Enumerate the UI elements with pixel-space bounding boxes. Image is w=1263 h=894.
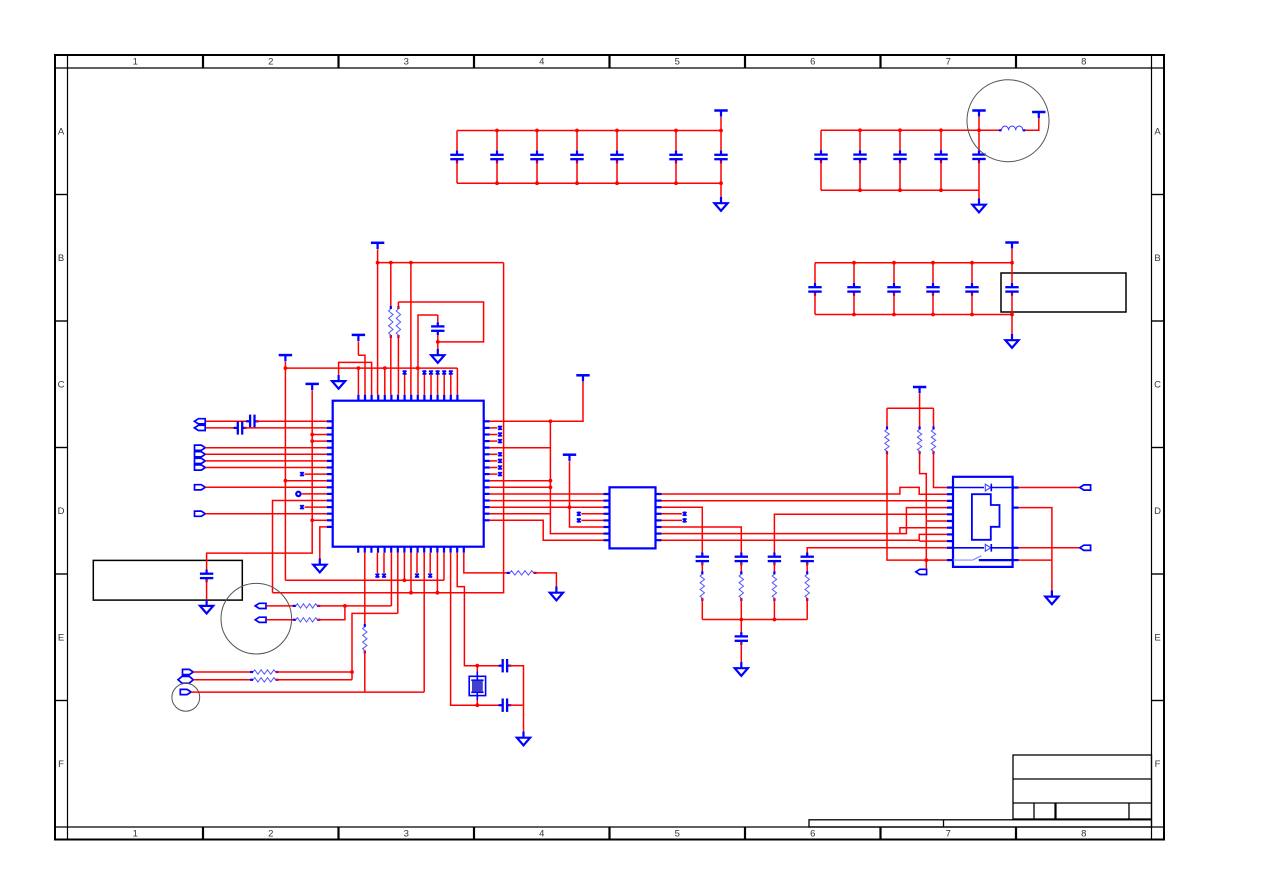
connector block box right [1001, 273, 1126, 312]
connector pin P3 [195, 445, 206, 450]
capacitor C2 [496, 131, 498, 154]
wire U1 right pin1 to VCC [490, 382, 583, 422]
top power rail [378, 262, 504, 264]
junction rail368 pin1 [357, 366, 361, 370]
connector pin P5 [195, 458, 206, 463]
svg-text:B: B [1154, 253, 1160, 264]
capacitor C5 [616, 131, 618, 154]
wire P14 up [925, 560, 927, 569]
junction top rail R2 [389, 261, 393, 265]
no-connect X U1 bottom pin5 [383, 553, 385, 573]
capacitor C24 series [503, 699, 507, 712]
power bar VCC mid-right bank [1005, 243, 1018, 249]
ground top bank [720, 183, 722, 197]
wire R8 to vertical [276, 671, 353, 673]
connector pin P10 [255, 617, 266, 622]
wire top rail drop right [503, 263, 505, 593]
power bar VCC ferrite right [1032, 112, 1045, 118]
power bar VCC6 [913, 387, 926, 393]
wire U1 right pin10 to bus [490, 480, 551, 482]
junction top rail pin9 feed [409, 261, 413, 265]
svg-text:A: A [58, 127, 65, 138]
wire to U1 left pin4 [312, 440, 327, 442]
svg-text:B: B [58, 253, 64, 264]
U1 left pin stubs [327, 421, 333, 527]
ground right of R5 [550, 587, 563, 601]
junction C19 bottom [436, 340, 440, 344]
frame column numbers [133, 57, 1087, 840]
capacitor C17 [971, 263, 973, 286]
wire U1 bottom pin2 drop to R4 [364, 553, 366, 627]
power bar VCC5 [563, 455, 576, 461]
junction bus pin11 [549, 485, 553, 489]
wire J1 bottom out [1019, 559, 1052, 561]
svg-text:8: 8 [1081, 57, 1086, 68]
capacitor C25 [696, 557, 709, 561]
resistor R12 [773, 571, 775, 574]
wire U1 right pin14 to U2 pin3 [490, 506, 604, 508]
no-connect X U1 left pin14 [300, 505, 304, 510]
capacitor C3 [536, 131, 538, 154]
svg-text:D: D [1154, 506, 1161, 517]
no-connect X U1 top pin14 [443, 375, 445, 395]
ground left of U1 top [332, 375, 345, 389]
junction pin14 power net [568, 505, 572, 509]
wire U2 right pin6 to C26 [662, 527, 742, 555]
frame row letters [58, 127, 1162, 771]
no-connect X U1 left pin9 [300, 472, 304, 477]
ground crystal [517, 732, 530, 746]
wire C23 to gnd stem [509, 666, 524, 706]
wire rail to C29 [740, 620, 742, 635]
svg-text:7: 7 [946, 57, 951, 68]
capacitor C1 [456, 131, 458, 154]
junction VCC3 U1 left pin16 [310, 518, 314, 522]
resistor R3 vertical [397, 306, 399, 309]
wire to U1 left pin16 [312, 519, 327, 521]
wire C27 to R12 [773, 563, 775, 575]
wire U2 right pin8 weave to J1 pin8 [662, 534, 947, 540]
frame row ticks [55, 195, 1164, 701]
connector pin P7 [195, 485, 206, 490]
wire U1 left pin17 to ground [320, 527, 327, 559]
connector pin P4 [195, 452, 206, 457]
J1 left pin stubs [947, 488, 953, 548]
wire rail692 [191, 691, 424, 693]
capacitor C23 series [503, 659, 507, 672]
wire crystal top to C23 [477, 665, 501, 667]
capacitor C15 [893, 263, 895, 286]
capacitor C22 [200, 574, 213, 578]
wire rail2 loop [398, 302, 483, 342]
wire P12 to R9 [193, 679, 253, 681]
capacitor C16 [932, 263, 934, 286]
no-connect X U1 top pin8 [404, 375, 406, 395]
no-connect X U1 right pin8 [490, 467, 498, 469]
svg-text:5: 5 [675, 57, 680, 68]
wire rail to U1 top pin 9 [410, 263, 412, 395]
wire C19 top jog to U1 pin 10 [418, 315, 438, 395]
junction crystal bottom [475, 703, 479, 707]
resistor R4 vertical [364, 624, 366, 627]
wire R15 down [920, 451, 927, 560]
svg-text:8: 8 [1081, 829, 1086, 840]
wire R7 up to junction [317, 606, 345, 620]
no-connect X U2 left pin5 [577, 518, 581, 523]
capacitor C4 [576, 131, 578, 154]
wire J1 out mid to ground [1019, 508, 1052, 591]
inductor L1 ferrite bead [999, 129, 1001, 131]
connector pin P15 [1080, 485, 1091, 490]
ground mid-right bank [1011, 315, 1013, 335]
junction P11 net [350, 670, 354, 674]
ground top-right bank [978, 190, 980, 198]
wire L1 to power bar [1025, 118, 1038, 130]
microcontroller U1 body [333, 401, 484, 547]
crystal Y1 [476, 666, 478, 672]
highlight circle pins left [221, 583, 292, 654]
highlight circle around ferrite bead [967, 80, 1049, 162]
connector pin P6 [195, 465, 206, 470]
wire U1 right pin5 to bus [490, 447, 551, 449]
junction crystal top [475, 664, 479, 668]
capacitor C27 [768, 557, 781, 561]
wire R14 to J1 bottom [887, 451, 947, 560]
junction VCC3 U1 left pin3 [310, 433, 314, 437]
wire to crystal ground [523, 705, 525, 731]
J1 bottom-left pin stub [947, 559, 953, 561]
junction termination rail [739, 618, 743, 622]
wire C28 to J1 pin10 [807, 548, 947, 555]
ground J1 [1045, 590, 1058, 604]
bottom rail line2 [273, 592, 505, 594]
wire U1 bottom pin9 drop [410, 553, 412, 593]
wire P10 to R7 [267, 619, 296, 621]
wire U1 bottom pin6 drop [390, 553, 392, 606]
no-connect X U1 right pin4 [490, 440, 498, 442]
junction VCC3 U1 left pin4 [310, 439, 314, 443]
U1 bottom pin stubs [358, 547, 464, 553]
J1 internal top line with diode D1 [953, 487, 984, 489]
no-connect X U1 right pin3 [490, 434, 498, 436]
junction rail368 pin5 [383, 366, 387, 370]
svg-text:3: 3 [404, 829, 409, 840]
wire C25 to R10 [701, 563, 703, 575]
wire VCC2 jog to U1 top pin2 [358, 355, 365, 395]
wire U1 right pin16 to U2 pin8 [490, 520, 604, 540]
power bar VCC left of U1 [279, 355, 292, 361]
power bar VCC top bank [714, 111, 727, 117]
title block lower band [809, 820, 1152, 827]
svg-text:2: 2 [268, 57, 273, 68]
svg-text:F: F [1155, 759, 1161, 770]
no-connect X U1 right pin6 [490, 453, 498, 455]
wire P1 to C20 [206, 420, 248, 422]
wire P11 to R8 [193, 671, 253, 673]
wire rail368 to U1 top pin1 [357, 368, 359, 395]
U1 right pin stubs [484, 421, 490, 520]
ground below C22 [200, 600, 213, 614]
connector pin P1 [194, 419, 205, 424]
wire C27 to J1 pin5 [774, 514, 947, 555]
svg-text:6: 6 [810, 829, 815, 840]
power bar VCC4 [576, 375, 589, 381]
junction R6 R7 net [343, 604, 347, 608]
wire J1 out low to P16 [1019, 547, 1080, 549]
junction T1net U1 left pin10 [284, 479, 288, 483]
svg-text:C: C [1154, 380, 1161, 391]
wire U1 left pin13 drop [273, 501, 327, 593]
wire R11 to rail [740, 598, 742, 620]
top decoupling bank top rail [457, 130, 721, 132]
resistor R8 [250, 671, 253, 673]
wire R16 to J1 pin1 [934, 451, 947, 487]
wire U2 right pin7 weave to J1 pin4 [662, 508, 947, 534]
no-connect X U1 right pin7 [490, 460, 498, 462]
top decoupling bank bottom rail [457, 182, 721, 184]
border frame inner lines [55, 55, 1164, 840]
wire stub J1 pin6 [926, 520, 947, 522]
junction termination rail C27 [773, 618, 777, 622]
svg-text:C: C [58, 380, 65, 391]
wire U2 right pin3 to C25 [662, 507, 703, 555]
wire net to U1 bottom pin6 [390, 605, 393, 607]
ground below U1 left pin17 [313, 559, 326, 573]
wire P5 to U1 left pin7 [205, 460, 326, 462]
connector pin P9 [255, 603, 266, 608]
connector pin P8 [195, 511, 206, 516]
wire ground branch to U1 top pin3 [339, 362, 372, 394]
termination rail [702, 619, 807, 621]
connector pin P11 [183, 669, 194, 674]
wire R5 to ground [534, 573, 557, 587]
no-connect X U1 top pin15 [450, 375, 452, 395]
capacitor C7 [720, 131, 722, 154]
capacitor C29 [735, 636, 748, 640]
wire stub J1 pin7 [900, 528, 947, 534]
wire R13 to rail [806, 598, 808, 620]
no-connect X U1 bottom pin4 [376, 553, 378, 573]
no-connect X U2 left pin4 [577, 512, 581, 517]
wire crystal bottom to C24 [477, 704, 501, 706]
resistor R9 [250, 679, 253, 681]
ground termination [735, 662, 748, 676]
wire rail to resistor 887.0 [886, 408, 888, 429]
wire P4 to U1 left pin6 [205, 453, 326, 455]
clock symbol U1 left pin12 [296, 492, 300, 496]
capacitor C14 [853, 263, 855, 286]
resistor R6 [293, 605, 296, 607]
svg-text:D: D [58, 506, 65, 517]
junction rail368 pin10-net [416, 366, 420, 370]
wire R12 to rail [773, 598, 775, 620]
no-connect X U1 right pin9 [490, 473, 498, 475]
wire T1 net vertical left [284, 368, 286, 580]
resistor R2 vertical [390, 263, 392, 309]
ground below C19 [437, 342, 439, 349]
power rail y368 [285, 367, 457, 369]
capacitor C11 [940, 130, 942, 153]
wire P9 to R6 [267, 605, 296, 607]
junction line2 pin13 [436, 591, 440, 595]
svg-text:A: A [1154, 127, 1161, 138]
wire U1 bottom pin15 to crystal bottom [451, 553, 478, 706]
svg-text:F: F [58, 759, 64, 770]
capacitor C9 [859, 130, 861, 153]
connector pin P12 [178, 676, 193, 683]
svg-text:1: 1 [133, 829, 138, 840]
wire U1 bottom pin11 drop [423, 553, 425, 692]
no-connect X U1 bottom pin12 [429, 553, 431, 573]
connector pin P16 [1080, 545, 1091, 550]
transceiver U2 body [610, 487, 656, 548]
connector pin P2 [194, 425, 205, 430]
wire rail to resistor 933.5 [933, 408, 935, 429]
resistor R13 [806, 571, 808, 574]
capacitor C6 [675, 131, 677, 154]
mid-right bank bottom rail [815, 314, 1012, 316]
mid-right bank top rail [815, 262, 1012, 264]
bias rail [887, 407, 934, 409]
wire U2 right pin2 to J1 pin3 [662, 500, 947, 502]
connector pin P13 [180, 689, 191, 694]
capacitor C28 [801, 557, 814, 561]
capacitor C19 osc [437, 315, 439, 322]
wire rail368 to U1 top pin5 [384, 368, 386, 395]
frame column ticks [203, 55, 1016, 840]
U1 top pin stubs [358, 395, 457, 401]
wire C26 to R11 [740, 563, 742, 575]
no-connect X U1 top pin11 [423, 375, 425, 395]
wire U1 right pin11 to bus [490, 486, 551, 488]
resistor R14 [886, 426, 888, 429]
wire vertical up to y613 [352, 613, 398, 679]
wire line1 corner U1 bottom pin14 [443, 553, 445, 581]
svg-text:E: E [1154, 633, 1160, 644]
wire U1 bottom pin8 drop [403, 553, 405, 581]
wire J1 out top to P15 [1019, 487, 1080, 489]
J1 right pin stubs [1013, 488, 1019, 561]
wire R6 to junction [317, 605, 391, 607]
wire U1 bottom pin17 to R5 [464, 553, 510, 573]
svg-text:4: 4 [539, 829, 544, 840]
capacitor C8 [820, 130, 822, 153]
wire U1 bottom pin13 drop [436, 553, 438, 593]
no-connect X U2 right pin5 [662, 519, 683, 521]
junction VCC rail368 [284, 366, 288, 370]
wire C24 to gnd stem [509, 704, 524, 706]
title block [1013, 755, 1152, 819]
wire U1 right pin13 to U2 pin2 [490, 500, 604, 502]
wire U1 bottom pin16 to crystal top [457, 553, 477, 666]
module box left [93, 560, 242, 600]
capacitor C12 [978, 130, 980, 153]
power bar VCC3 left [306, 384, 319, 390]
wire R10 to rail [701, 598, 703, 620]
power bar VCC2 above U1 pin2 [352, 335, 365, 341]
bottom rail line1 [285, 579, 444, 581]
svg-text:7: 7 [946, 829, 951, 840]
connector pin P14 [916, 569, 927, 574]
capacitor C20 series [250, 415, 254, 428]
junction top rail T stem [376, 261, 380, 265]
border frame outer [55, 55, 1164, 840]
svg-text:1: 1 [133, 57, 138, 68]
capacitor C21 series [238, 421, 242, 434]
U2 right pin stubs [656, 494, 662, 540]
junction line2 pin9 [409, 591, 413, 595]
svg-text:E: E [58, 633, 64, 644]
resistor R10 [701, 571, 703, 574]
wire R9 to vertical [276, 679, 353, 681]
capacitor C13 [814, 263, 816, 286]
wire U2 right pin1 weave to J1 pin2 [662, 487, 947, 494]
resistor R15 [918, 426, 920, 429]
svg-text:5: 5 [675, 829, 680, 840]
U2 left pin stubs [604, 494, 610, 540]
svg-text:6: 6 [810, 57, 815, 68]
wire C20 to U1 left pin1 [256, 420, 326, 422]
wire P8 to U1 left pin15 [205, 513, 326, 515]
wire P6 to U1 left pin8 [205, 467, 326, 469]
power bar VCC above U1 [371, 243, 384, 249]
no-connect X U1 top pin13 [437, 375, 439, 395]
J1 internal line with diode D2 [953, 547, 984, 549]
power bar VCC ferrite left [972, 111, 985, 117]
wire rail to U1 top pin 4 [377, 263, 379, 395]
wire U1 bottom pin7 drop [397, 553, 399, 614]
wire VCC5 to U2 pin6 [570, 461, 604, 527]
J1 plug outline [972, 494, 1000, 540]
wire U1 right pin15 to bus [490, 513, 551, 515]
top-right bank top rail [821, 129, 1000, 131]
no-connect X U1 top pin12 [430, 375, 432, 395]
capacitor C10 [899, 130, 901, 153]
resistor R7 [293, 619, 296, 621]
wire rail to resistor 919.6 [919, 408, 921, 429]
wire C28 to R13 [806, 563, 808, 575]
wire P7 to U1 left pin11 [205, 486, 326, 488]
wire P3 to U1 left pin5 [205, 447, 326, 449]
wire rail368 corner to U1 top pin16 [456, 368, 458, 395]
J1 internal bottom line with switch [953, 559, 973, 561]
wire to U1 left pin3 [312, 434, 327, 436]
junction line1 pin8 [403, 578, 407, 582]
resistor R11 [740, 571, 742, 574]
resistor R16 [932, 426, 934, 429]
svg-text:3: 3 [404, 57, 409, 68]
wire VCC3 to C22 [207, 520, 313, 572]
wire U1 right pin12 to U2 pin1 [490, 493, 604, 495]
highlight circle single pin [172, 683, 200, 711]
RJ45 jack J1 body [953, 477, 1013, 567]
svg-text:2: 2 [268, 829, 273, 840]
capacitor C18 [1011, 263, 1013, 286]
wire to U1 left pin10 [285, 480, 326, 482]
wire stub J1 pin9 [919, 540, 947, 542]
wire C21 to U1 left pin2 [244, 427, 327, 429]
junction pin1 bus [549, 419, 553, 423]
junction bottom rail [924, 558, 928, 562]
resistor R5 [507, 572, 510, 574]
capacitor C26 [735, 557, 748, 561]
no-connect X U2 right pin4 [662, 513, 683, 515]
wire C29 to ground [740, 642, 742, 662]
no-connect X U1 right pin2 [490, 427, 498, 429]
junction bus pin10 [549, 479, 553, 483]
wire R4 to rail692 [364, 651, 366, 693]
svg-text:4: 4 [539, 57, 544, 68]
